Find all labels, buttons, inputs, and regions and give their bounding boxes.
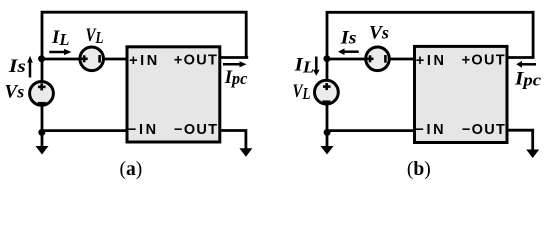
svg-text:Vs: Vs	[5, 81, 25, 102]
svg-text:Ipc: Ipc	[224, 67, 248, 88]
svg-text:Is: Is	[8, 56, 26, 77]
svg-text:−OUT: −OUT	[462, 122, 506, 138]
svg-text:Ipc: Ipc	[514, 69, 542, 90]
svg-text:+IN: +IN	[129, 53, 160, 69]
svg-text:+IN: +IN	[416, 53, 447, 69]
svg-text:−OUT: −OUT	[174, 122, 218, 138]
svg-text:−IN: −IN	[128, 122, 159, 138]
svg-text:+OUT: +OUT	[174, 53, 218, 69]
svg-text:IL: IL	[293, 54, 314, 76]
svg-text:(a): (a)	[120, 159, 143, 180]
svg-text:+OUT: +OUT	[462, 53, 506, 69]
svg-text:Is: Is	[339, 28, 356, 49]
svg-text:Vs: Vs	[369, 22, 389, 43]
svg-text:(b): (b)	[407, 159, 431, 180]
svg-text:IL: IL	[51, 27, 70, 49]
svg-text:VL: VL	[293, 81, 311, 103]
svg-text:VL: VL	[86, 25, 104, 47]
svg-text:−IN: −IN	[415, 122, 446, 138]
